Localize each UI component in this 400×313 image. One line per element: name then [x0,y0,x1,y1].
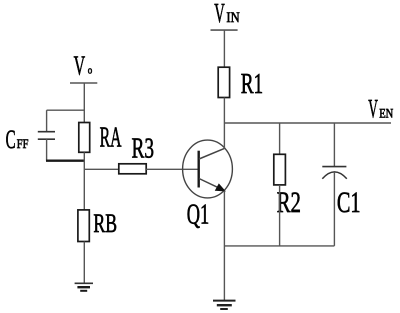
wire C1 top lead [333,123,335,167]
svg-text:R1: R1 [241,68,264,100]
capacitor C1 [322,167,347,179]
wire bottom-right bus [224,245,334,247]
resistor R3 [119,164,146,174]
svg-text:EN: EN [379,105,393,120]
svg-text:C: C [6,124,16,154]
resistor RA [79,123,90,153]
svg-text:IN: IN [226,10,240,26]
wire top-right to VEN [224,122,391,124]
svg-text:V: V [214,0,225,28]
wire R2 top lead [279,123,281,154]
wire Cff top lead [46,110,48,131]
label Vo [74,50,93,80]
wire RB bottom to ground [83,242,85,284]
wire R1 to collector [223,98,225,149]
svg-text:R3: R3 [132,133,155,165]
wire Cff top branch [47,109,85,111]
label VEN [368,94,393,123]
wire base: RA column to R3 [84,168,119,170]
wire VIN to R1 [223,30,225,67]
svg-text:RA: RA [100,122,122,153]
svg-text:Q1: Q1 [187,199,210,231]
ground (left) [75,283,93,291]
label VIN [214,0,240,28]
capacitor CFF [38,132,55,140]
transistor Q1 [183,140,233,198]
svg-text:V: V [74,50,86,80]
wire R2 bottom lead [279,185,281,246]
svg-text:RB: RB [93,209,117,238]
wire R3 to base [146,168,198,170]
resistor R2 [274,154,286,185]
node Vo terminal bar [70,82,97,84]
wire Cff bottom lead [46,139,48,161]
resistor R1 [218,67,229,97]
svg-text:FF: FF [17,136,29,151]
svg-text:V: V [368,94,378,123]
svg-text:C1: C1 [337,186,361,219]
resistor RB [78,210,89,242]
wire C1 bottom lead [333,172,335,246]
ground (center) [213,301,236,309]
wire Cff bottom branch (thick) [46,159,84,161]
wire RA bottom to RB top [83,152,85,210]
label CFF [6,124,29,154]
node VIN terminal bar [211,29,238,31]
wire emitter down to ground [223,191,225,301]
svg-text:o: o [88,65,93,77]
wire Vo down to RA top [83,83,85,123]
